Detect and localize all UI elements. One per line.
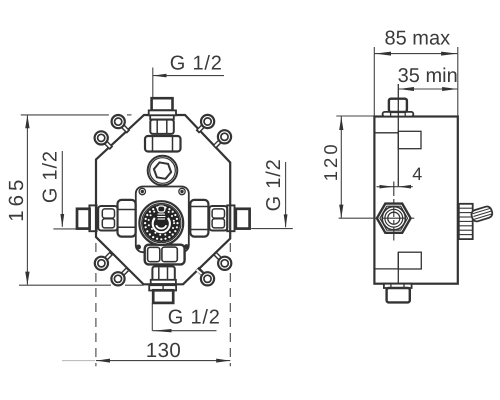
dim 4 left arrow: [380, 185, 394, 189]
dim 4 right arrow: [399, 185, 412, 189]
dim 85 max right extension: [457, 47, 459, 117]
cartridge stem cap: [158, 206, 165, 212]
dim 85 max left arrow: [375, 52, 391, 56]
leader G1/2 right extension: [251, 228, 293, 230]
svg-text:85 max: 85 max: [385, 28, 451, 50]
dim 35 min left arrow: [399, 87, 414, 91]
mounting plate: [136, 187, 189, 253]
svg-text:4: 4: [412, 164, 422, 184]
side knob ribbed block: [459, 204, 473, 239]
plate screw top-right: [179, 188, 185, 194]
bonnet circle: [148, 156, 178, 186]
dim 120 top arrow: [339, 117, 343, 130]
dimension 165 bottom extension line: [19, 284, 144, 286]
top washer: [149, 110, 176, 115]
dim 35 min line: [398, 88, 458, 90]
right washer: [227, 205, 234, 231]
cartridge mouth arc: [156, 225, 166, 228]
bottom pipe G1/2: [153, 290, 173, 303]
cartridge screw slot: [157, 214, 165, 219]
dimension 130 right extension line (dashed): [229, 243, 231, 366]
svg-text:G 1/2: G 1/2: [168, 306, 221, 328]
mounting eyelet TR-a: [201, 115, 214, 128]
left union nut: [98, 206, 117, 231]
side bottom notch: [398, 252, 421, 269]
bonnet hexagon: [154, 162, 171, 178]
svg-text:G 1/2: G 1/2: [40, 150, 62, 203]
leader G1/2 top arrow: [153, 74, 167, 78]
dim 85 max right arrow: [441, 52, 457, 56]
leader G1/2 left arrow: [60, 214, 64, 227]
left pipe G1/2: [77, 209, 90, 229]
svg-text:120: 120: [320, 141, 341, 181]
dimension 130 faint tail: [62, 360, 95, 362]
mounting eyelet TR-a stem: [197, 122, 207, 132]
right hex nut: [190, 200, 208, 237]
side top-left partition: [374, 132, 398, 134]
dimension 130 line: [96, 360, 230, 362]
svg-text:165: 165: [5, 176, 28, 222]
bottom big hex: [145, 245, 185, 265]
leader G1/2 bottom extension: [151, 303, 153, 331]
dim 120 top extension: [336, 115, 374, 117]
side inner vertical line: [397, 84, 399, 187]
right pipe G1/2: [236, 209, 250, 229]
mounting eyelet BL-b stem: [118, 268, 128, 278]
mounting eyelet BR-b stem: [197, 268, 208, 278]
leader G1/2 left line: [61, 151, 63, 227]
mounting eyelet BL-a stem: [101, 253, 111, 263]
cartridge horseshoe: [153, 218, 170, 232]
side bottom stub nut: [387, 288, 410, 302]
leader G1/2 left extension: [53, 228, 76, 230]
top flange: [150, 115, 174, 119]
cartridge dark disc: [142, 204, 180, 242]
bottom washer: [151, 280, 176, 284]
dimension 130 left arrow: [96, 359, 110, 363]
dim 120 bottom arrow: [339, 205, 343, 218]
leader G1/2 bottom arrow: [152, 329, 171, 332]
svg-text:130: 130: [146, 339, 181, 362]
mounting eyelet BR-b: [201, 272, 214, 285]
dim 85 max left extension: [373, 47, 375, 117]
side knob lever: [470, 205, 493, 222]
valve body octagon: [96, 115, 230, 284]
side body: [374, 117, 457, 284]
dim 35 min right arrow: [442, 87, 457, 91]
dimension 165 bottom arrow: [25, 272, 29, 285]
mounting eyelet TR-b stem: [214, 137, 224, 147]
leader G1/2 top line: [153, 75, 224, 77]
svg-text:G 1/2: G 1/2: [263, 158, 285, 211]
leader G1/2 right line: [285, 162, 287, 227]
plate screw top-left: [139, 188, 145, 194]
mounting eyelet BR-a: [218, 257, 231, 270]
side top stub washer: [383, 112, 414, 117]
left washer: [89, 205, 96, 231]
dim 4 line: [377, 186, 413, 188]
left hex nut: [118, 200, 136, 237]
side top stub nut: [389, 99, 407, 112]
dim 85 max line: [374, 53, 458, 55]
plate screw bottom-right: [184, 244, 189, 249]
leader G1/2 right arrow: [284, 214, 288, 227]
cartridge dot rings: [144, 206, 179, 241]
cartridge ring: [142, 204, 181, 243]
bottom small hex: [152, 266, 174, 281]
svg-text:35 min: 35 min: [398, 65, 458, 87]
plate screw bottom-left: [136, 245, 141, 250]
side hex crosshair: [382, 182, 407, 241]
mounting eyelet TL-b stem: [101, 138, 111, 148]
side inner vertical line lower: [397, 252, 399, 283]
dim 120 line: [340, 116, 342, 218]
side bottom-left partition: [374, 268, 398, 270]
top small hex: [150, 120, 174, 134]
side bottom stub washer: [384, 284, 412, 288]
dimension 165 top extension line: [21, 114, 132, 116]
side top notch: [398, 131, 421, 148]
mounting eyelet TL-a stem: [118, 122, 128, 132]
mounting eyelet BL-b: [111, 272, 124, 285]
mounting eyelet TL-a: [112, 115, 125, 128]
dimension 130 right arrow: [216, 359, 230, 363]
top pipe G1/2: [152, 98, 173, 110]
side hex circles: [382, 207, 405, 230]
mounting eyelet TL-b: [95, 131, 108, 144]
right union nut: [209, 206, 227, 231]
mounting eyelet TR-b: [218, 130, 231, 143]
dimension 165 top arrow: [25, 115, 29, 128]
leader G1/2 bottom line: [152, 330, 216, 332]
bottom flange: [149, 285, 176, 290]
cartridge outer circle: [139, 201, 183, 245]
leader G1/2 top extension: [152, 68, 154, 99]
mounting eyelet BL-a: [95, 257, 108, 270]
dimension 130 left extension line (dashed): [95, 243, 97, 366]
side hex fitting: [377, 204, 411, 233]
mounting eyelet BR-a stem: [214, 253, 224, 263]
side hex fitting horizontal centerline: [339, 217, 415, 219]
top big hex: [145, 136, 181, 152]
svg-text:G 1/2: G 1/2: [170, 52, 223, 74]
dimension 165 line: [26, 116, 28, 285]
